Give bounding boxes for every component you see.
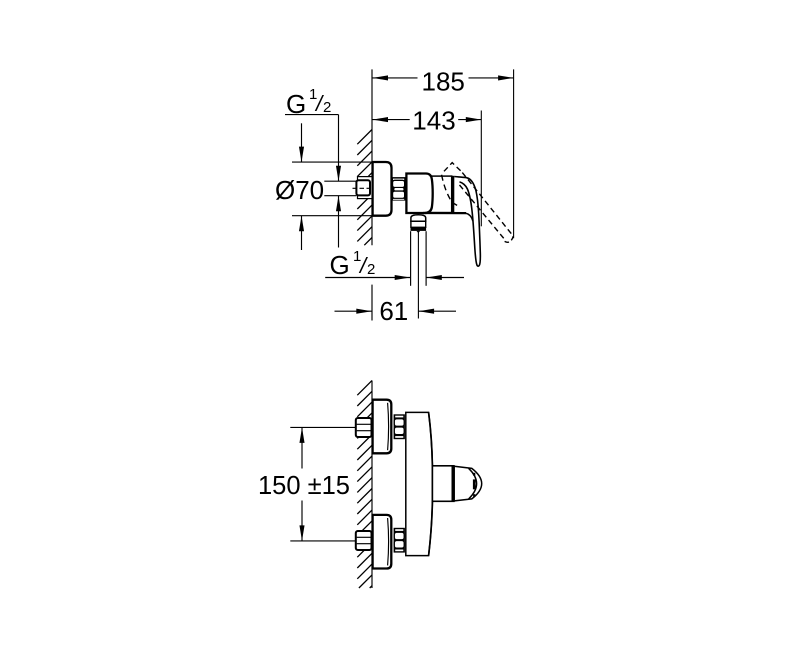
cartridge housing — [406, 174, 432, 214]
nut centerline (dashed) — [353, 187, 377, 189]
outlet seal (dark band) — [411, 227, 427, 231]
body middle section — [428, 176, 452, 213]
dimension Ø70 — [292, 161, 373, 163]
handle dome and lever (solid, down position) — [454, 177, 480, 267]
knob inner arc — [469, 468, 477, 499]
wall hatching (top view) — [357, 130, 372, 246]
dimension 185 — [372, 77, 418, 79]
svg-text:2: 2 — [367, 261, 375, 278]
outlet seal notch — [416, 231, 420, 233]
S-union nut (top view) — [392, 178, 406, 201]
bottom mounting nut (plan) — [356, 531, 372, 550]
escutcheon flange Ø70 (top view) — [373, 162, 392, 216]
top escutcheon flange (plan) — [373, 400, 392, 454]
svg-text:150 ±15: 150 ±15 — [258, 472, 350, 500]
top S-union nut (plan) — [394, 414, 405, 439]
supply hex nut — [356, 180, 370, 195]
outlet collar dome — [411, 215, 426, 222]
raised lever tick (dashed) — [453, 203, 460, 207]
top mounting nut (plan) — [356, 418, 372, 437]
wall line / left extension line (top view) — [371, 69, 373, 245]
shower pipe — [410, 231, 412, 286]
raised lever lower edge (dashed) — [460, 185, 506, 241]
dimension 143 — [372, 119, 410, 121]
svg-text:2: 2 — [323, 99, 331, 116]
raised lever upper edge (dashed) — [462, 173, 513, 237]
G1/2 top leader vertical + arrows — [338, 115, 340, 181]
bottom S-union nut (plan) — [394, 528, 405, 553]
body bottom edge — [423, 212, 466, 214]
supply socket behind wall — [358, 177, 373, 199]
bottom escutcheon flange (plan) — [373, 515, 392, 569]
knob dashed slot — [473, 473, 475, 476]
wall hatching (plan view) — [357, 381, 372, 589]
divider ring (bold bar) — [451, 176, 454, 213]
body (plan view) — [406, 412, 433, 555]
extension line right 143 — [480, 111, 482, 227]
dimension 150±15 — [290, 426, 356, 428]
raised lever back edge (dashed) — [442, 175, 452, 202]
svg-text:Ø70: Ø70 — [275, 175, 324, 205]
svg-text:143: 143 — [412, 105, 455, 135]
outlet ring — [411, 221, 426, 227]
handle knob (plan) — [454, 466, 482, 501]
wall line (plan view) — [371, 381, 373, 589]
wall extension line below (for 61 dim) — [371, 285, 373, 321]
pipe centerline — [417, 232, 419, 319]
supply pipe nipple — [324, 180, 356, 182]
extension line right 185 — [513, 69, 515, 238]
svg-text:185: 185 — [422, 67, 465, 97]
svg-text:61: 61 — [379, 296, 408, 326]
lever inner hook from body — [466, 213, 473, 221]
raised lever peak (dashed) — [444, 163, 461, 172]
svg-text:G: G — [330, 250, 350, 280]
dimension 61 — [335, 310, 372, 312]
handle neck (plan) — [432, 466, 454, 502]
raised lever tip arc (dashed) — [505, 236, 514, 242]
handle divider bar (plan) — [452, 466, 455, 502]
